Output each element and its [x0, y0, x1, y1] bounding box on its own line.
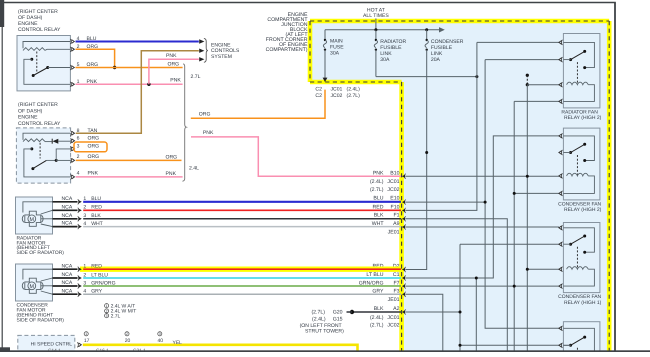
- edge connector at row y=176.2: [404, 174, 407, 179]
- svg-text:F1: F1: [393, 213, 399, 219]
- svg-text:C1: C1: [393, 272, 400, 278]
- relay K1 engine control relay (upper): [17, 36, 70, 91]
- edge connector at row y=227: [404, 224, 407, 229]
- wire: condenser link vertical down to RED D2 row: [406, 50, 429, 270]
- svg-text:1: 1: [106, 304, 108, 308]
- svg-text:2.4L: 2.4L: [189, 165, 199, 171]
- connector condenser fan motor pin 2: [77, 275, 80, 280]
- radiator fusible link 30A: [374, 30, 406, 77]
- junction block edge connectors C1/C2 rows: [0, 0, 1, 1]
- svg-text:NCA: NCA: [62, 272, 73, 278]
- svg-text:CONTROL RELAY: CONTROL RELAY: [18, 121, 61, 127]
- wire: radiator link to relay1 pin1 junction: [376, 75, 479, 78]
- brace grouping engine variants: [183, 64, 187, 182]
- svg-text:(2.4L): (2.4L): [347, 86, 361, 92]
- K2 pin numbers and wire colors: [77, 128, 100, 177]
- svg-text:JC02: JC02: [387, 187, 399, 193]
- K1 pin 2 connector: [69, 47, 72, 52]
- svg-text:RED: RED: [373, 204, 384, 210]
- K1 pin 5 connector: [69, 65, 72, 70]
- svg-text:NCA: NCA: [62, 204, 73, 210]
- svg-text:JE01: JE01: [388, 229, 400, 235]
- K1 pin 4 connector: [69, 39, 72, 44]
- label: engine compartment junction block: [266, 12, 309, 53]
- label: (RIGHT CENTER OF DASH) ENGINE CONTROL RELAY (upper): [18, 9, 61, 33]
- cut-off next row text fragments: [48, 348, 146, 354]
- svg-text:JE01: JE01: [388, 297, 400, 303]
- edge connector at row y=286.1: [404, 284, 407, 289]
- svg-text:ORG: ORG: [168, 62, 180, 68]
- connector radiator fan motor pin 3: [77, 216, 80, 221]
- svg-text:NCA: NCA: [62, 196, 73, 202]
- svg-text:C2: C2: [315, 93, 322, 99]
- svg-text:HI SPEED CNTRL: HI SPEED CNTRL: [31, 341, 73, 347]
- wire NCA from radiator fan motor pin 1: [53, 201, 78, 203]
- svg-text:1: 1: [85, 332, 87, 336]
- svg-text:NCA: NCA: [62, 213, 73, 219]
- svg-text:ALL TIMES: ALL TIMES: [363, 13, 389, 19]
- wire ORG from brace to junction block C2: [191, 90, 325, 119]
- wire PNK from K1 pin1 to brace, with riser to engine controls: [76, 59, 199, 86]
- wire GRN/ORG to junction block: [83, 285, 401, 287]
- edge connector at row y=218.8: [404, 216, 407, 221]
- relay K4 CONDENSER FAN RELAY (HIGH 2): [558, 128, 602, 213]
- K1 pin numbers: [77, 36, 80, 85]
- wire BLK to junction block: [83, 218, 401, 220]
- svg-text:M: M: [30, 284, 35, 290]
- svg-text:NCA: NCA: [62, 280, 73, 286]
- svg-text:YEL: YEL: [173, 340, 183, 346]
- svg-text:JC01: JC01: [387, 315, 399, 321]
- svg-text:3: 3: [159, 332, 161, 336]
- svg-text:(2.4L): (2.4L): [370, 179, 384, 185]
- K2 pin 8 connector: [70, 131, 73, 136]
- radiator fan motor labels: [17, 235, 65, 256]
- svg-text:(2.7L): (2.7L): [370, 187, 384, 193]
- svg-text:PNK: PNK: [203, 130, 214, 136]
- wire: WHT A9 row to relay3 pin1: [406, 226, 560, 228]
- edge connector at row y=278: [404, 275, 407, 280]
- connector HI SPEED CNTRL output: [76, 342, 79, 347]
- node C2 JC01/JC02 connector labels: [315, 86, 360, 98]
- wire labels at junction block edge: condenser fan motor group: [359, 263, 400, 328]
- wire NCA from condenser fan motor pin 2: [53, 277, 78, 279]
- legend: engine variant footnotes: [105, 303, 137, 319]
- condenser fan motor labels: [17, 303, 65, 324]
- svg-text:(2.4L): (2.4L): [370, 315, 384, 321]
- svg-text:COMPARTMENT): COMPARTMENT): [266, 47, 308, 53]
- svg-text:OF DASH): OF DASH): [18, 108, 43, 114]
- wire NCA from condenser fan motor pin 4: [53, 293, 78, 295]
- svg-text:30A: 30A: [330, 51, 340, 57]
- svg-text:CONTROL RELAY: CONTROL RELAY: [18, 27, 61, 33]
- svg-text:RELAY (HIGH 2): RELAY (HIGH 2): [564, 115, 602, 121]
- wire TAN from K2 pin8 up to engine controls system: [76, 51, 199, 134]
- svg-text:BLK: BLK: [374, 213, 384, 219]
- svg-text:PNK: PNK: [88, 171, 99, 177]
- svg-text:PNK: PNK: [170, 78, 181, 84]
- wire BLU from K1 pin4 to engine controls system: [76, 40, 199, 42]
- K2 pin 4 connector: [70, 174, 73, 179]
- ground G20/G15: [300, 310, 401, 335]
- wire ORG from K1 pin5 to 2.7L brace: [76, 67, 183, 69]
- wire: relay1 pin4 / relay2 pin4 / GRN-ORG F7 row (vertical x=514.2): [406, 101, 560, 352]
- wire PNK from K2 pin4 to brace: [76, 176, 183, 178]
- edge connector at row y=202.1: [404, 200, 407, 205]
- svg-text:ORG: ORG: [88, 144, 100, 150]
- motor M2 condenser fan motor: [16, 264, 53, 301]
- svg-text:20A: 20A: [431, 57, 441, 63]
- wire: coil feed chain PNK B10 (vertical x=527.3): [406, 74, 560, 352]
- svg-text:BLK: BLK: [374, 306, 384, 312]
- svg-text:SIDE OF RADIATOR): SIDE OF RADIATOR): [17, 250, 65, 256]
- wire YEL from HI SPEED CNTRL: [83, 345, 358, 352]
- edge connector at row y=269.5: [404, 267, 407, 272]
- svg-text:F10: F10: [391, 204, 400, 210]
- svg-text:NCA: NCA: [62, 221, 73, 227]
- svg-text:JC01: JC01: [387, 179, 399, 185]
- edge connector at row y=294.3: [404, 292, 407, 297]
- wire NCA from condenser fan motor pin 3: [53, 285, 78, 287]
- wire PNK from brace to junction block B10: [191, 137, 401, 176]
- svg-text:ORG: ORG: [199, 112, 211, 118]
- svg-text:B10: B10: [390, 170, 399, 176]
- svg-text:ENGINE: ENGINE: [18, 115, 38, 121]
- motor M1 radiator fan motor: [16, 197, 53, 234]
- svg-text:NCA: NCA: [62, 263, 73, 269]
- svg-text:(2.7L): (2.7L): [311, 310, 325, 316]
- svg-text:BLU: BLU: [87, 36, 97, 42]
- svg-text:PNK: PNK: [166, 171, 177, 177]
- svg-text:(RIGHT CENTER: (RIGHT CENTER: [18, 102, 58, 108]
- svg-text:6: 6: [77, 136, 80, 142]
- wire: relay1 pin1 feed (vertical x=476.9 to RED F10 row): [406, 42, 560, 210]
- wire: BLK F1 row down to bottom (vertical x=507.3): [406, 219, 508, 352]
- svg-text:17: 17: [84, 338, 90, 344]
- svg-text:M: M: [30, 217, 35, 223]
- svg-text:PNK: PNK: [166, 53, 177, 59]
- K1 pin 1 connector: [69, 82, 72, 87]
- svg-text:ORG: ORG: [87, 62, 99, 68]
- wire NCA from radiator fan motor pin 4: [53, 226, 78, 228]
- svg-text:ORG: ORG: [88, 154, 100, 160]
- svg-text:JC01: JC01: [331, 86, 343, 92]
- svg-text:STRUT TOWER): STRUT TOWER): [305, 329, 344, 335]
- svg-text:ORG: ORG: [87, 44, 99, 50]
- svg-text:30A: 30A: [380, 57, 390, 63]
- highlighted RED wire (yellow trace highlight): [80, 267, 401, 272]
- wire: BLK A2 / relay3 pin2 / relay4 pin2 (vertical x=460): [406, 244, 560, 352]
- svg-text:ORG: ORG: [166, 154, 178, 160]
- svg-text:(2.7L): (2.7L): [347, 93, 361, 99]
- svg-text:A2: A2: [393, 306, 399, 312]
- svg-text:LT BLU: LT BLU: [366, 272, 383, 278]
- condenser fusible link 20A: [425, 30, 464, 63]
- label: (RIGHT CENTER OF DASH) ENGINE CONTROL RELAY (lower): [18, 102, 61, 127]
- wire LT BLU to junction block: [83, 277, 401, 279]
- svg-text:G15: G15: [333, 316, 343, 322]
- connector radiator fan motor pin 4: [77, 224, 80, 229]
- svg-text:20: 20: [125, 338, 131, 344]
- svg-text:RELAY (HIGH 1): RELAY (HIGH 1): [564, 300, 602, 306]
- wire NCA from radiator fan motor pin 3: [53, 218, 78, 220]
- svg-text:(2.4L): (2.4L): [312, 316, 326, 322]
- svg-text:2.7L: 2.7L: [191, 74, 201, 80]
- unit HI SPEED CNTRL (cut off): [18, 335, 75, 351]
- wire: LT BLU branch down (vertical x=476.3): [475, 277, 478, 353]
- svg-text:3: 3: [106, 314, 108, 318]
- wire: GRY F3 row down to bottom: [406, 294, 443, 352]
- connector condenser fan motor pin 3: [77, 283, 80, 288]
- wire ORG from K1 pin2 down to pin5 row: [76, 49, 117, 69]
- svg-text:JC02: JC02: [387, 322, 399, 328]
- svg-text:4: 4: [77, 171, 80, 177]
- relay K6 RADIATOR FAN RELAY (HIGH 1) (cut off): [559, 322, 600, 355]
- svg-text:40: 40: [158, 338, 164, 344]
- svg-text:RELAY (HIGH 2): RELAY (HIGH 2): [564, 207, 602, 213]
- svg-text:3: 3: [77, 144, 80, 150]
- svg-text:C2: C2: [315, 86, 322, 92]
- svg-text:2: 2: [106, 309, 108, 313]
- power feed: HOT AT ALL TIMES: [363, 7, 389, 29]
- connector condenser fan motor pin 4: [77, 292, 80, 297]
- main fuse 30A: [323, 30, 345, 82]
- wire RED to junction block: [83, 209, 401, 211]
- bus wire inside junction block: [325, 27, 445, 32]
- wire: relay2 pin1 to LT BLU C1 row (vertical x=493.3): [406, 136, 560, 278]
- wire GRY to junction block: [83, 293, 401, 295]
- annotations on YEL wire: [84, 332, 182, 346]
- node: to ENGINE CONTROLS SYSTEM (3 arrows + brace): [199, 38, 240, 62]
- svg-text:PNK: PNK: [373, 170, 384, 176]
- wire WHT to junction block: [83, 226, 401, 228]
- engine compartment junction block (blue area with yellow dashed border): [310, 21, 609, 352]
- svg-text:2.7L: 2.7L: [111, 313, 121, 319]
- wire labels at junction block edge: radiator fan motor group: [370, 170, 400, 235]
- svg-text:ORG: ORG: [88, 136, 100, 142]
- svg-text:JC02: JC02: [331, 93, 343, 99]
- svg-text:SIDE OF RADIATOR): SIDE OF RADIATOR): [17, 317, 65, 323]
- wire NCA from radiator fan motor pin 2: [53, 209, 78, 211]
- edge connector at row y=312: [404, 309, 407, 314]
- K2 pin 3 connector: [70, 146, 73, 151]
- relay K2 engine control relay (lower, dashed): [16, 128, 70, 183]
- svg-text:SYSTEM: SYSTEM: [211, 54, 232, 60]
- connector radiator fan motor pin 1: [77, 199, 80, 204]
- svg-text:(2.7L): (2.7L): [370, 322, 384, 328]
- svg-text:E10: E10: [390, 196, 399, 202]
- wire NCA from condenser fan motor pin 1: [53, 268, 78, 270]
- relay K5 CONDENSER FAN RELAY (HIGH 1): [558, 223, 602, 306]
- relay K3 RADIATOR FAN RELAY (HIGH 2): [559, 34, 602, 122]
- edge connector at row y=210.4: [404, 208, 407, 213]
- K2 pin 6 connector: [70, 138, 73, 143]
- wire: relay1 pin2 / BLU E10 / relay4 pin1 (vertical x=485.1): [406, 60, 560, 329]
- wire RED to junction block: [83, 268, 401, 270]
- wire ORG from K2 pin2 to 2.4L brace: [76, 159, 182, 161]
- svg-text:2: 2: [126, 332, 128, 336]
- bottom frame bar: [0, 347, 650, 352]
- connector condenser fan motor pin 1: [77, 267, 80, 272]
- K2 pin 2 connector: [70, 158, 73, 163]
- svg-text:PNK: PNK: [87, 79, 98, 85]
- svg-text:G20: G20: [333, 310, 343, 316]
- connector radiator fan motor pin 2: [77, 208, 80, 213]
- svg-text:NCA: NCA: [62, 288, 73, 294]
- jumper wire ORG between K2 pin6 and pin3: [74, 142, 107, 152]
- svg-text:BLU: BLU: [373, 196, 383, 202]
- wire BLU to junction block: [83, 201, 401, 203]
- svg-text:2: 2: [77, 154, 80, 160]
